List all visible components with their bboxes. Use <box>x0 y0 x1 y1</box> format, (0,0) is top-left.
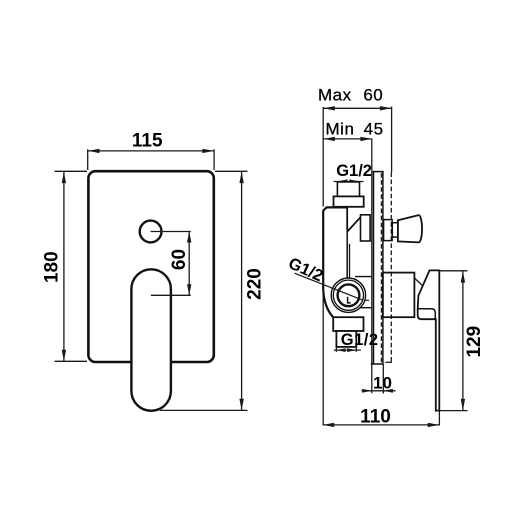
outlet stub right of circle <box>355 276 372 278</box>
dim 10 arrows (outside pointing inward) <box>362 389 372 393</box>
svg-text:60: 60 <box>169 249 190 270</box>
body right edge + trapezoid slant <box>347 207 360 231</box>
wall plate side: front line <box>382 172 384 364</box>
wall plate side: back line <box>373 172 375 364</box>
dim Max 60 line <box>323 107 391 109</box>
Max 60 left extension (down to body top) <box>322 107 324 207</box>
valve body slab <box>323 207 347 289</box>
dim 220 line <box>241 172 243 411</box>
dim 180 extension lines <box>55 170 88 172</box>
lever block on plate <box>383 273 415 318</box>
svg-text:110: 110 <box>360 407 391 428</box>
svg-text:Min 45: Min 45 <box>326 120 384 139</box>
dim 129 line <box>462 271 464 410</box>
dim 60 arrows <box>187 232 191 243</box>
G1/2 bottom dim ticks <box>335 347 337 352</box>
dim 220 arrows <box>239 172 243 184</box>
G1/2 leader diagonal <box>295 273 363 300</box>
diverter knob circle <box>140 221 162 243</box>
handle capsule <box>131 269 171 411</box>
dashed wall line near plate front <box>380 173 382 364</box>
dim 129 top extension <box>439 270 467 272</box>
dim 60 lower leader <box>151 294 191 296</box>
diverter sleeve through wall <box>384 220 393 241</box>
neck lines to circle flange <box>346 230 348 278</box>
Max 60 right extension <box>391 107 393 173</box>
dashed line foot <box>385 361 392 363</box>
svg-text:G1/2: G1/2 <box>336 162 372 180</box>
dashed max-wall line <box>390 172 392 362</box>
dim 110 line <box>323 424 440 426</box>
lever bottom extension to 110 dim <box>438 411 440 426</box>
circle inner thick <box>338 284 360 306</box>
wall plate <box>88 171 213 362</box>
svg-text:10: 10 <box>373 374 392 393</box>
circle flange outer <box>331 278 365 312</box>
wall plate side: bottom edge <box>371 363 383 365</box>
dim 115 line <box>88 150 214 152</box>
svg-text:115: 115 <box>132 130 163 151</box>
dim 129 bottom extension <box>438 410 468 412</box>
lever handle outline <box>418 270 440 410</box>
dim 115 extension lines <box>87 149 89 170</box>
dim 10 tick right <box>382 364 384 394</box>
dim 60 upper leader <box>151 231 191 233</box>
dim 180 arrows <box>62 172 66 184</box>
block small tick <box>414 278 422 286</box>
dim 60 line <box>188 232 190 296</box>
diverter stem <box>392 223 398 237</box>
dim 10 line <box>362 390 396 392</box>
dim 115 arrows <box>88 149 100 153</box>
svg-text:180: 180 <box>42 251 63 283</box>
lever foot inner line <box>418 309 436 319</box>
through-wall stub upper <box>361 215 371 241</box>
dim Min 45 line <box>323 138 372 140</box>
svg-text:129: 129 <box>464 326 485 358</box>
body bottom-left arc to union <box>323 290 333 318</box>
inlet union nut <box>334 196 364 206</box>
dim 180 line <box>63 172 65 362</box>
inlet pipe <box>337 182 359 197</box>
G1/2 top dim line with arrows <box>334 181 364 183</box>
keyway notch <box>348 297 351 303</box>
body lower-left thin extension to 110 dim <box>322 289 324 425</box>
dim 220 extension lines <box>215 170 248 172</box>
wall plate side: top edge <box>373 171 384 173</box>
bottom union nut <box>333 317 363 331</box>
svg-text:220: 220 <box>245 268 266 300</box>
bottom pipe stub <box>336 331 356 347</box>
svg-text:Max 60: Max 60 <box>318 86 383 105</box>
Min 45 right extension / thin line through plate to 10-dim <box>371 139 373 393</box>
G1/2 bottom dim line <box>334 349 361 351</box>
diverter knob side <box>398 215 422 242</box>
